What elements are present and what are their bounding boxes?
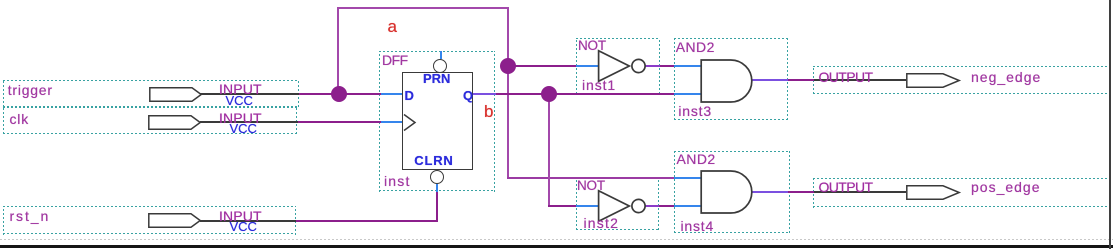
wire: NOT2 output stub (violet) — [645, 205, 659, 207]
wire: branch from x=507 drop to AND4 upper input — [507, 177, 674, 179]
label: pin name trigger — [8, 83, 53, 97]
selection box: NOT inst2 — [576, 178, 660, 231]
label: VCC of clk pin — [230, 122, 257, 135]
sheet guide: faint dotted line near bottom — [0, 239, 1113, 240]
label: pin name rst_n — [10, 209, 51, 223]
junction node: feedback to NOT1/AND4 — [500, 58, 516, 74]
node b: red net label — [484, 103, 493, 120]
label: DFF port PRN — [423, 72, 450, 85]
pin stub: DFF PRN top (blue) — [440, 51, 442, 60]
node a: red net label — [388, 18, 397, 35]
wire: feedback vertical drop at x=507 from top rail down to AND4 upper row — [507, 7, 509, 179]
gate AND2 inst3: D-shape body — [700, 59, 754, 103]
input pin symbol: trigger — [149, 87, 202, 102]
selection box: AND2 inst3 — [674, 38, 788, 120]
selection box: rst_n input pin — [3, 206, 296, 235]
flip-flop DFF inst: PRN bubble — [433, 59, 447, 73]
label: INPUT text of clk pin — [219, 111, 262, 125]
label: OUTPUT text of pos_edge pin — [819, 180, 873, 194]
label: instance name inst3 — [678, 104, 712, 118]
label: DFF port D — [405, 89, 414, 102]
wire: branch from node to NOT1 input — [507, 65, 576, 67]
pin stub: DFF clock input (blue) — [381, 121, 402, 123]
label: pin name clk — [10, 112, 30, 126]
wire: AND4 output net to OUTPUT pin — [788, 191, 814, 193]
flip-flop DFF inst: clock triangle marker — [404, 114, 417, 131]
selection box: neg_edge output pin (clipped right) — [813, 66, 1109, 94]
wire: DFF Q output stub (violet) — [473, 93, 496, 95]
input pin symbol: rst_n — [148, 213, 201, 228]
flip-flop DFF inst: CLRN bubble — [430, 170, 444, 184]
wire: AND3 output stub (violet) — [751, 79, 788, 81]
wire: NOT2 output to AND4 lower input — [659, 205, 674, 207]
sheet border: bottom black line — [0, 245, 1113, 248]
label: DFF port CLRN — [414, 154, 453, 167]
wire: CLRN vertical riser at x=437 — [436, 191, 438, 222]
label: instance name inst1 — [582, 78, 616, 92]
label: VCC of trigger pin — [226, 94, 253, 107]
label: OUTPUT text of neg_edge pin — [819, 70, 873, 84]
flip-flop DFF inst: body rectangle — [402, 72, 473, 170]
label: pin name pos_edge — [971, 180, 1041, 194]
label: AND2 symbol name of inst4 — [677, 152, 716, 166]
label: INPUT text of rst_n pin — [219, 209, 262, 223]
pin stub: AND4 lower input (blue) — [674, 205, 701, 207]
wire: pos_edge OUTPUT pin black stub — [814, 191, 906, 193]
selection box: AND2 inst4 — [674, 151, 790, 233]
pin stub: NOT1 input (blue) — [576, 65, 600, 67]
pin stub: AND3 lower input (blue) — [674, 93, 701, 95]
label: instance name inst2 — [584, 216, 620, 230]
pin stub: AND4 upper input (blue) — [674, 177, 701, 179]
pin stub: AND3 upper input (blue) — [674, 65, 701, 67]
label: DFF port Q — [463, 89, 473, 102]
sheet border: right vertical line — [1109, 0, 1111, 249]
selection box: pos_edge output pin (clipped right) — [813, 178, 1109, 208]
output pin symbol: neg_edge — [906, 73, 960, 88]
wire: Q net vertical drop at x=549 to NOT2 row — [548, 94, 550, 206]
wire: AND4 output stub (violet) — [751, 191, 788, 193]
label: DFF instance name inst — [384, 174, 411, 188]
pin stub: DFF CLRN bottom (blue) — [436, 184, 438, 192]
output pin symbol: pos_edge — [906, 185, 960, 200]
selection box: NOT inst1 — [576, 38, 661, 94]
wire: AND3 output net to OUTPUT pin — [788, 79, 814, 81]
wire: top horizontal feedback rail y=8 — [337, 7, 509, 9]
wire: Q output net horizontal from DFF to AND3 lower input — [496, 93, 675, 95]
label: pin name neg_edge — [971, 70, 1041, 84]
gate NOT inst2: triangle and bubble — [597, 189, 645, 223]
label: AND2 symbol name of inst3 — [676, 40, 715, 54]
label: instance name inst4 — [681, 219, 715, 233]
wire: neg_edge OUTPUT pin black stub — [814, 79, 906, 81]
junction node: trigger/feedback — [331, 86, 347, 102]
wire: branch to NOT2 input — [548, 205, 576, 207]
wire: trigger INPUT pin black stub — [200, 93, 299, 95]
wire: NOT1 output to AND3 upper input — [660, 65, 675, 67]
pin stub: DFF D input (blue) — [381, 93, 402, 95]
wire: feedback vertical riser at x=338 from trigger net to top rail — [337, 7, 339, 95]
input pin symbol: clk — [148, 115, 201, 130]
label: NOT symbol name of inst2 — [577, 179, 605, 193]
pin stub: NOT2 input (blue) — [576, 205, 600, 207]
wire: trigger net horizontal from INPUT pin box to DFF D — [299, 93, 381, 95]
wire: clk INPUT pin black stub — [200, 121, 298, 123]
label: VCC of rst_n pin — [230, 220, 257, 233]
label: INPUT text of trigger pin — [219, 82, 262, 96]
selection box: trigger input pin — [3, 80, 299, 108]
junction node: Q to NOT2 — [541, 86, 557, 102]
wire: NOT1 output stub (violet) — [645, 65, 660, 67]
gate NOT inst1: triangle and bubble — [597, 49, 645, 83]
label: DFF symbol name — [382, 53, 408, 67]
label: NOT symbol name of inst1 — [578, 39, 606, 53]
wire: clk net horizontal to DFF clock — [298, 121, 382, 123]
selection box: DFF inst — [379, 51, 495, 192]
gate AND2 inst4: D-shape body — [700, 170, 754, 214]
wire: rst_n net horizontal to CLRN riser — [296, 220, 438, 222]
wire: rst_n INPUT pin black stub — [200, 220, 296, 222]
selection box: clk input pin — [3, 107, 298, 134]
